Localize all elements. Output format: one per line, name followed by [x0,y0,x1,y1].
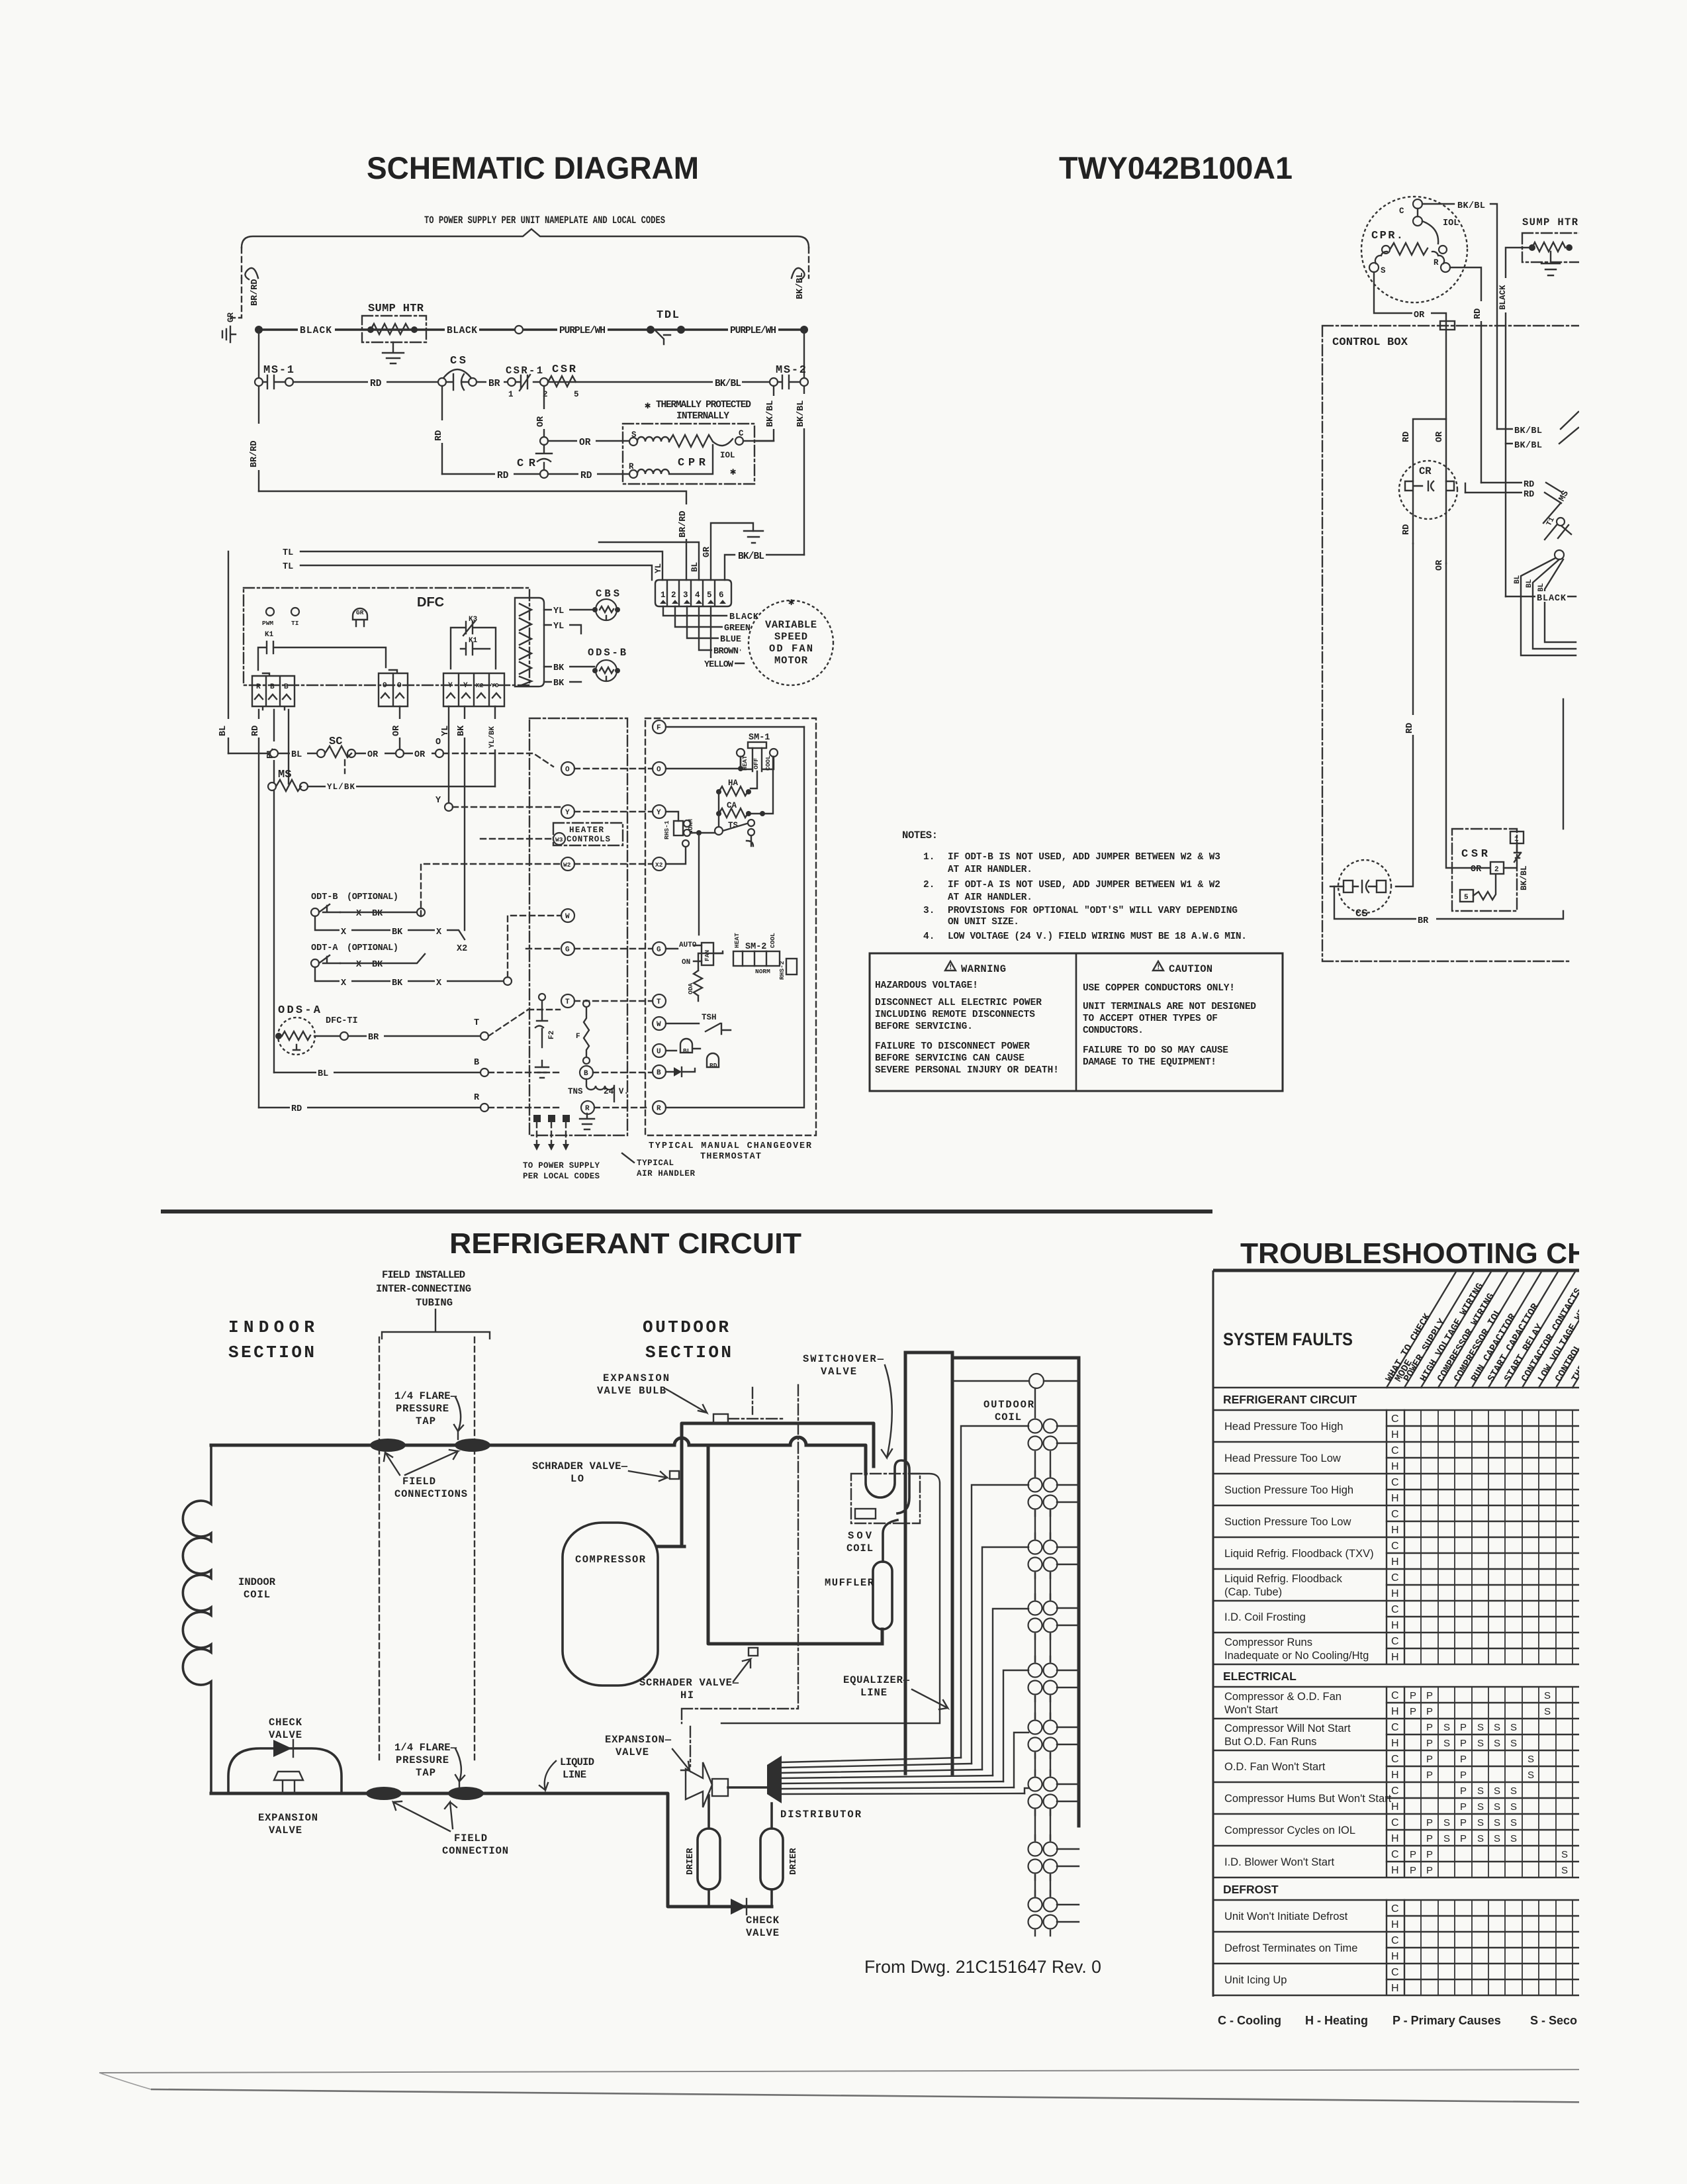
svg-text:RD: RD [709,1062,717,1069]
svg-text:BR: BR [368,1033,379,1043]
svg-text:HAZARDOUS VOLTAGE!: HAZARDOUS VOLTAGE! [875,980,978,991]
test pins PWM TI [266,608,274,616]
svg-text:REFRIGERANT CIRCUIT: REFRIGERANT CIRCUIT [1223,1393,1357,1406]
svg-text:P - Primary Causes: P - Primary Causes [1392,2014,1501,2027]
terminal Y [561,805,574,818]
label BLACK 2 [445,324,479,335]
svg-text:TO POWER SUPPLY: TO POWER SUPPLY [523,1161,600,1170]
svg-text:PRESSURE: PRESSURE [396,1754,449,1766]
expansion valve left [274,1772,303,1793]
compressor CPR circle right [1361,197,1467,303]
node left top rail [255,326,263,334]
svg-text:BEFORE SERVICING CAN CAUSE: BEFORE SERVICING CAN CAUSE [875,1053,1025,1064]
svg-text:REFRIGERANT CIRCUIT: REFRIGERANT CIRCUIT [449,1227,801,1260]
svg-text:INDOOR: INDOOR [238,1576,276,1588]
svg-text:S: S [1381,266,1386,275]
wire dashed G [526,948,561,949]
conduit curl left [245,268,258,279]
svg-text:BK: BK [372,960,383,970]
svg-text:W: W [657,1021,661,1029]
label PURPLE/WH [557,324,608,335]
svg-text:IF ODT-B IS NOT USED, ADD JUMP: IF ODT-B IS NOT USED, ADD JUMPER BETWEEN… [948,852,1220,863]
svg-text:RD: RD [1473,309,1483,319]
table band DEFROST [1213,1899,1582,1901]
wire YL vertical from Y [443,719,454,737]
svg-text:S: S [1510,1833,1517,1844]
svg-text:BK/BL: BK/BL [715,379,741,389]
terminal B [580,1066,593,1079]
svg-text:SCHRADER VALVE—: SCHRADER VALVE— [532,1460,628,1472]
svg-text:CS: CS [450,355,466,367]
wire RD vertical from R [258,710,259,1108]
svg-text:OFF: OFF [752,758,760,769]
svg-text:VALVE: VALVE [746,1927,779,1939]
svg-text:T: T [474,1018,479,1028]
coil top circle [1029,1374,1044,1388]
svg-text:VALVE: VALVE [269,1729,302,1741]
svg-text:SCRHADER VALVE—: SCRHADER VALVE— [639,1677,739,1689]
svg-text:TUBING: TUBING [416,1297,453,1309]
svg-text:MUFFLER: MUFFLER [825,1577,874,1589]
svg-text:BL: BL [291,750,302,760]
svg-text:Compressor Hums But Won't Star: Compressor Hums But Won't Start [1224,1793,1392,1805]
svg-text:COOL: COOL [769,933,776,948]
label typical air handler [622,1153,634,1163]
label BR/RD rotated on drop [680,504,692,539]
table row Compressor Cycles on IOL [1213,1814,1582,1846]
svg-text:HEATER: HEATER [569,826,604,835]
svg-text:X: X [436,927,442,937]
CPR run winding coil [637,445,713,474]
svg-text:T: T [565,998,570,1006]
table row I.D. Coil Frosting [1213,1601,1582,1633]
diode on B [666,1068,695,1072]
svg-text:CAUTION: CAUTION [1169,963,1212,975]
svg-text:P: P [1426,1754,1433,1765]
svg-text:BK/BL: BK/BL [1514,441,1542,451]
svg-text:RD: RD [1402,432,1412,442]
svg-text:O: O [435,737,441,747]
svg-text:TO POWER SUPPLY PER UNIT NAMEP: TO POWER SUPPLY PER UNIT NAMEPLATE AND L… [424,214,665,226]
svg-text:3: 3 [683,591,688,600]
wire C to BK/BL vertical [743,440,774,442]
svg-text:ODT-B: ODT-B [311,892,338,902]
svg-text:OR: OR [1435,559,1445,571]
muffler [883,1520,897,1562]
svg-text:NOTES:: NOTES: [902,830,938,841]
svg-text:C: C [1391,1509,1399,1520]
svg-text:F: F [657,724,661,732]
ground sump heater right [1541,252,1560,275]
svg-text:X: X [341,927,347,937]
svg-text:P: P [1460,1833,1467,1844]
svg-text:BLACK: BLACK [300,326,332,336]
wire TL rail 2 [300,565,652,580]
wire rail 2 [293,381,774,383]
svg-text:BR/RD: BR/RD [250,440,259,467]
header pipes to coil [905,1353,1079,1826]
svg-text:OR: OR [1435,431,1445,442]
thermostat box [645,718,816,1135]
schrader valve LO tap [670,1471,679,1479]
wire ODT-A row2 [315,967,504,981]
svg-text:P: P [1426,1770,1433,1781]
svg-text:H: H [1391,1556,1399,1568]
table row Unit Icing Up [1213,1964,1582,1995]
svg-text:C: C [1391,1445,1399,1456]
svg-text:BK/BL: BK/BL [796,400,806,427]
svg-text:X2: X2 [476,682,484,689]
svg-text:C: C [1391,1849,1399,1860]
svg-text:WARNING: WARNING [961,963,1006,975]
wire OR horizontal [548,440,629,442]
wire MS-2 left vertical BK/BL [756,386,774,441]
svg-text:LO: LO [570,1473,584,1485]
svg-text:R: R [657,1105,661,1113]
drier 2 [760,1828,783,1889]
outdoor coil pass 5 [1035,1656,1050,1701]
wire dashed W [508,916,561,977]
svg-text:S: S [1510,1817,1517,1828]
svg-text:✱: ✱ [788,596,795,608]
wire RD long down [1396,544,1413,886]
wires terminal strip to motor [663,606,744,663]
svg-text:P: P [1426,1738,1433,1749]
svg-text:H: H [1391,1770,1399,1781]
svg-text:S: S [1494,1801,1500,1813]
svg-text:G: G [565,946,570,954]
svg-text:AT AIR HANDLER.: AT AIR HANDLER. [948,892,1032,903]
svg-text:BL: BL [683,1047,691,1055]
wire BK vertical [464,706,465,930]
svg-text:Y: Y [463,682,468,690]
svg-text:H: H [1391,1801,1399,1813]
wire dashed drop right [808,248,809,278]
svg-text:NORM: NORM [755,968,770,975]
svg-text:BL: BL [690,562,700,572]
terminal T [561,994,574,1008]
air handler terminal box [529,718,627,1135]
svg-text:1: 1 [1514,835,1519,843]
capacitor F2 [535,1001,547,1047]
svg-text:C: C [1391,1935,1399,1946]
terminal O [561,762,574,775]
wire OR vertical from O block [399,706,400,753]
label BR/RD rotated lower left [251,424,263,470]
svg-text:S: S [1494,1833,1500,1844]
label RD rotated [1475,301,1486,321]
dashed field split lines [379,1337,475,1761]
svg-text:X: X [341,978,347,988]
svg-text:BK: BK [392,978,403,988]
svg-text:TWY042B100A1: TWY042B100A1 [1059,150,1293,185]
svg-text:OR: OR [579,438,591,448]
wire BL drop to terminal 4 [599,542,699,580]
svg-text:USE COPPER CONDUCTORS ONLY!: USE COPPER CONDUCTORS ONLY! [1083,983,1235,994]
svg-text:P: P [1426,1833,1433,1844]
SOV coil element [855,1509,876,1519]
svg-text:P: P [1426,1706,1433,1717]
svg-text:C: C [1399,207,1404,216]
svg-text:COIL: COIL [846,1543,873,1554]
ground at terminal area [744,531,763,543]
wire YL stub [544,625,581,634]
svg-text:Unit Won't Initiate Defrost: Unit Won't Initiate Defrost [1224,1911,1348,1923]
svg-text:C: C [1391,1785,1399,1797]
svg-text:ELECTRICAL: ELECTRICAL [1223,1670,1297,1683]
terminal G [561,942,574,955]
svg-text:PURPLE/WH: PURPLE/WH [730,326,776,336]
label BR [486,377,504,387]
svg-text:Y: Y [565,809,570,817]
svg-text:RHS-1: RHS-1 [663,820,670,839]
section divider rule [161,1210,1212,1213]
svg-text:P: P [1426,1690,1433,1701]
svg-text:S: S [1477,1722,1484,1733]
indoor coil serpentine [183,1445,211,1793]
svg-text:COIL: COIL [244,1589,270,1601]
svg-text:H: H [1391,1865,1399,1876]
svg-text:X: X [436,978,442,988]
svg-text:I.D. Blower Won't Start: I.D. Blower Won't Start [1224,1856,1334,1868]
SOV box dashed [851,1474,920,1523]
svg-text:T: T [657,998,661,1006]
connector block R B B [252,673,295,710]
svg-text:OR: OR [367,750,379,760]
svg-text:TDL: TDL [657,309,679,322]
outdoor coil pass 3 [1035,1533,1050,1578]
svg-text:S: S [1477,1817,1484,1828]
wire BK/BL tap 2 [1506,428,1578,444]
liquid line pipe [211,1793,772,1907]
svg-text:PROVISIONS FOR OPTIONAL "ODT'S: PROVISIONS FOR OPTIONAL "ODT'S" WILL VAR… [948,906,1238,916]
svg-text:F2: F2 [548,1031,556,1039]
svg-text:TO ACCEPT OTHER TYPES OF: TO ACCEPT OTHER TYPES OF [1083,1014,1218,1024]
drier 1 [698,1828,720,1889]
svg-text:From Dwg. 21C151647 Rev. 0: From Dwg. 21C151647 Rev. 0 [864,1957,1101,1977]
svg-text:CONTROLS: CONTROLS [567,835,610,844]
page right edge cover [1579,0,1687,2184]
table row Suction Pressure Too High [1213,1474,1582,1505]
wire BL vertical from B [273,710,275,1072]
table row I.D. Blower Won't Start [1213,1846,1582,1877]
svg-text:B: B [657,1069,661,1077]
svg-text:EXPANSION: EXPANSION [258,1812,318,1824]
svg-text:DRIER: DRIER [789,1848,799,1875]
svg-text:BK: BK [553,679,565,688]
svg-text:Liquid Refrig. Floodback: Liquid Refrig. Floodback [1224,1573,1343,1585]
wire BK/BL from C [1422,204,1497,429]
svg-text:BK/BL: BK/BL [738,551,764,562]
svg-text:BLACK: BLACK [729,612,759,622]
svg-text:IOL: IOL [1443,218,1459,228]
svg-text:YL: YL [553,622,564,632]
svg-text:C: C [1391,1413,1399,1425]
table row Head Pressure Too Low [1213,1442,1582,1474]
svg-text:RD: RD [1524,490,1534,500]
field connection oval 2 [455,1439,490,1452]
node open circle top rail [515,326,523,334]
svg-text:TNS: TNS [568,1087,583,1096]
label BK/BL rail2 [713,377,742,387]
wire BLACK bottom [1506,596,1576,597]
svg-text:BK/BL: BK/BL [1520,865,1529,890]
svg-text:SECTION: SECTION [645,1343,731,1362]
svg-text:UNIT TERMINALS ARE NOT DESIGNE: UNIT TERMINALS ARE NOT DESIGNED [1083,1002,1256,1012]
table row Suction Pressure Too Low [1213,1505,1582,1537]
svg-text:RD: RD [580,471,592,481]
field connection oval 3 [366,1787,402,1800]
svg-text:TL: TL [283,548,293,558]
svg-text:TYPICAL MANUAL CHANGEOVER: TYPICAL MANUAL CHANGEOVER [649,1141,812,1151]
table row Compressor &amp; O.D. Fan [1213,1687,1582,1719]
svg-text:BLUE: BLUE [720,635,741,645]
svg-text:S: S [1477,1833,1484,1844]
header diagonal separators [1387,1272,1687,1388]
svg-text:YL/BK: YL/BK [488,726,496,748]
svg-text:EQUALIZER—: EQUALIZER— [843,1674,910,1686]
svg-text:BR: BR [488,379,500,389]
wire left vertical BR/RD [258,330,259,491]
svg-text:P: P [1460,1738,1467,1749]
svg-text:BLACK: BLACK [1537,594,1567,604]
svg-text:6: 6 [719,591,724,600]
svg-text:Y: Y [435,796,441,806]
svg-text:C: C [1391,1572,1399,1584]
svg-text:TL: TL [283,562,293,572]
svg-text:X: X [356,960,362,970]
svg-text:Compressor Runs: Compressor Runs [1224,1637,1312,1648]
wire F to right rail [666,726,804,728]
node right top rail [800,326,808,334]
svg-text:S: S [1527,1770,1534,1781]
svg-text:1: 1 [508,390,514,399]
svg-text:IOL: IOL [720,451,735,460]
svg-text:2: 2 [671,591,676,600]
svg-text:(OPTIONAL): (OPTIONAL) [347,943,398,953]
wire GR to ground [711,523,753,580]
svg-text:CONTROL BOX: CONTROL BOX [1332,336,1408,349]
wire RD tap 1 [1481,483,1561,492]
pipe to distributor [728,1786,766,1789]
svg-text:CSR: CSR [1461,848,1488,861]
terminal T2 [653,994,666,1008]
terminal strip 1-6 [655,580,731,606]
svg-text:X2: X2 [457,944,467,954]
svg-text:P: P [1426,1817,1433,1828]
svg-text:YELLOW: YELLOW [704,660,734,670]
svg-text:ODS-B: ODS-B [588,647,626,659]
svg-text:YO: YO [491,682,499,689]
table row Defrost Terminates on Time [1213,1932,1582,1964]
table row Compressor Will Not Start [1213,1719,1582,1750]
svg-text:✱: ✱ [730,466,737,478]
compressor body [563,1523,658,1685]
label OR rotated [538,409,549,429]
svg-text:H: H [1391,1620,1399,1631]
svg-text:Inadequate or No Cooling/Htg: Inadequate or No Cooling/Htg [1224,1650,1369,1662]
svg-text:YL: YL [654,563,663,573]
svg-text:SEVERE PERSONAL INJURY OR DEAT: SEVERE PERSONAL INJURY OR DEATH! [875,1065,1059,1076]
svg-text:2.: 2. [923,880,935,890]
svg-text:DRIER: DRIER [686,1848,696,1875]
svg-text:O: O [383,682,387,690]
svg-text:OR: OR [414,750,426,760]
svg-text:S: S [1443,1738,1450,1749]
expansion valve bulb tap [713,1414,728,1423]
label RD rail2 [368,377,387,387]
svg-text:C: C [1391,1636,1399,1647]
svg-text:FIELD: FIELD [454,1832,487,1844]
svg-text:O.D. Fan Won't Start: O.D. Fan Won't Start [1224,1761,1326,1773]
svg-text:ODT-A: ODT-A [311,943,338,953]
svg-text:24 V.: 24 V. [604,1087,629,1096]
svg-text:BLACK: BLACK [447,326,477,336]
wire R to RD vertical [1450,267,1481,483]
svg-text:BK/BL: BK/BL [766,400,776,427]
svg-text:LINE: LINE [860,1687,887,1699]
svg-text:LINE: LINE [563,1769,586,1781]
svg-text:P: P [1460,1817,1467,1828]
svg-text:BL: BL [1514,575,1522,584]
svg-text:Y: Y [448,682,453,690]
edge connector chevrons [515,598,544,687]
svg-text:INTER-CONNECTING: INTER-CONNECTING [376,1283,471,1295]
svg-text:Compressor Will Not Start: Compressor Will Not Start [1224,1723,1351,1734]
lamp BL [680,1039,692,1053]
svg-text:YL: YL [553,606,564,616]
svg-text:PER LOCAL CODES: PER LOCAL CODES [523,1172,600,1181]
label BK/BL rotated right [798,394,810,428]
svg-text:FAILURE TO DO SO MAY CAUSE: FAILURE TO DO SO MAY CAUSE [1083,1045,1228,1056]
svg-text:C: C [1391,1722,1399,1733]
svg-text:S: S [1510,1722,1517,1733]
svg-text:VALVE: VALVE [616,1746,649,1758]
svg-text:1/4 FLARE—: 1/4 FLARE— [394,1742,457,1754]
conduit curl right [792,268,805,279]
svg-text:SUMP HTR: SUMP HTR [368,303,424,315]
svg-text:S: S [1443,1817,1450,1828]
wire ODT-B row2 [315,916,465,939]
svg-text:S: S [1443,1833,1450,1844]
svg-text:C: C [1391,1690,1399,1701]
terminal R2 [653,1101,666,1114]
svg-text:O: O [565,766,570,774]
terminal W [561,909,574,922]
svg-text:FAN: FAN [704,950,711,961]
equalizer line pipe [721,1474,940,1723]
svg-text:C: C [1391,1477,1399,1488]
svg-text:But O.D. Fan Runs: But O.D. Fan Runs [1224,1736,1316,1748]
svg-text:GR: GR [702,546,712,557]
svg-text:S: S [1443,1722,1450,1733]
brace under power supply note [242,229,809,248]
wire dashed T to thermostat [488,1010,560,1036]
svg-text:OR: OR [392,725,402,736]
svg-text:S: S [1510,1785,1517,1797]
svg-text:R: R [585,1105,590,1113]
svg-text:ON UNIT SIZE.: ON UNIT SIZE. [948,917,1019,927]
svg-text:SCHEMATIC DIAGRAM: SCHEMATIC DIAGRAM [367,150,699,185]
svg-text:THERMOSTAT: THERMOSTAT [700,1152,761,1162]
svg-text:X: X [356,909,362,919]
svg-text:H: H [1391,1429,1399,1441]
wire BK/BL tap 1 [1497,412,1578,429]
wire YL/BK vertical [494,706,496,786]
svg-text:H: H [1391,1588,1399,1599]
svg-text:COIL: COIL [995,1411,1021,1423]
svg-text:H: H [1391,1493,1399,1504]
